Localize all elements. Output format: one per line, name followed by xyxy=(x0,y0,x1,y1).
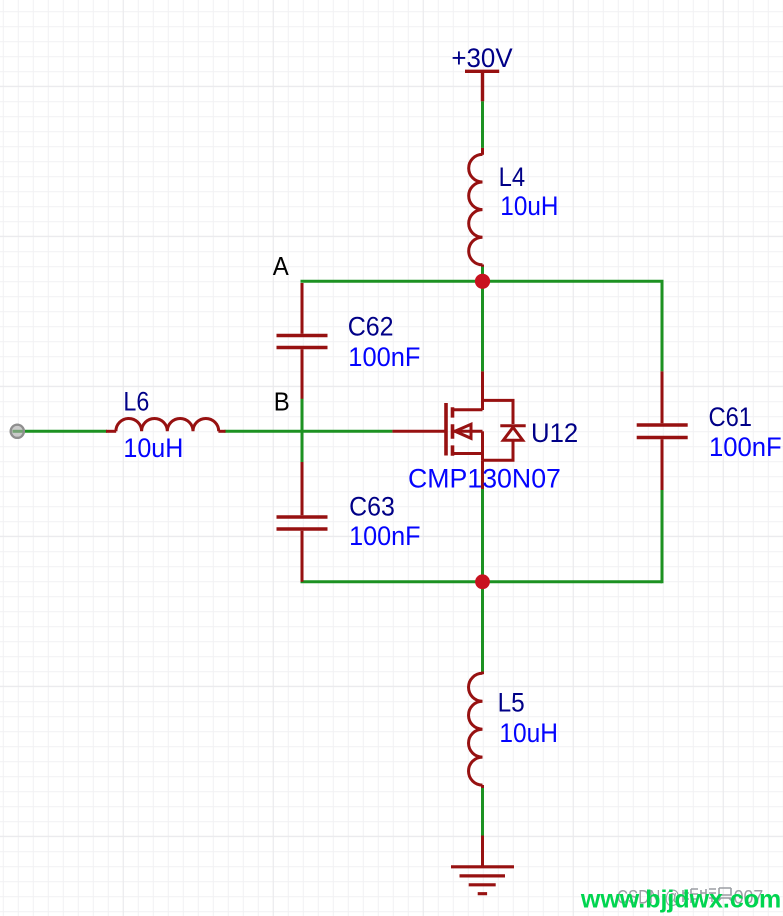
svg-text:100nF: 100nF xyxy=(348,342,420,372)
svg-text:10uH: 10uH xyxy=(123,433,183,463)
svg-text:www.bjjdwx.com: www.bjjdwx.com xyxy=(580,885,781,913)
svg-text:C62: C62 xyxy=(348,312,394,342)
svg-text:B: B xyxy=(274,386,290,416)
svg-text:L5: L5 xyxy=(498,687,525,717)
svg-text:A: A xyxy=(273,251,290,281)
svg-text:100nF: 100nF xyxy=(709,432,782,462)
svg-text:C63: C63 xyxy=(349,492,395,522)
svg-text:C61: C61 xyxy=(709,402,753,432)
svg-text:L4: L4 xyxy=(499,162,525,192)
svg-text:U12: U12 xyxy=(531,418,578,448)
svg-text:10uH: 10uH xyxy=(500,191,558,221)
svg-text:L6: L6 xyxy=(123,387,149,417)
svg-text:+30V: +30V xyxy=(451,43,512,73)
svg-text:10uH: 10uH xyxy=(499,718,558,748)
svg-text:CMP130N07: CMP130N07 xyxy=(408,464,561,494)
svg-text:100nF: 100nF xyxy=(349,521,420,551)
